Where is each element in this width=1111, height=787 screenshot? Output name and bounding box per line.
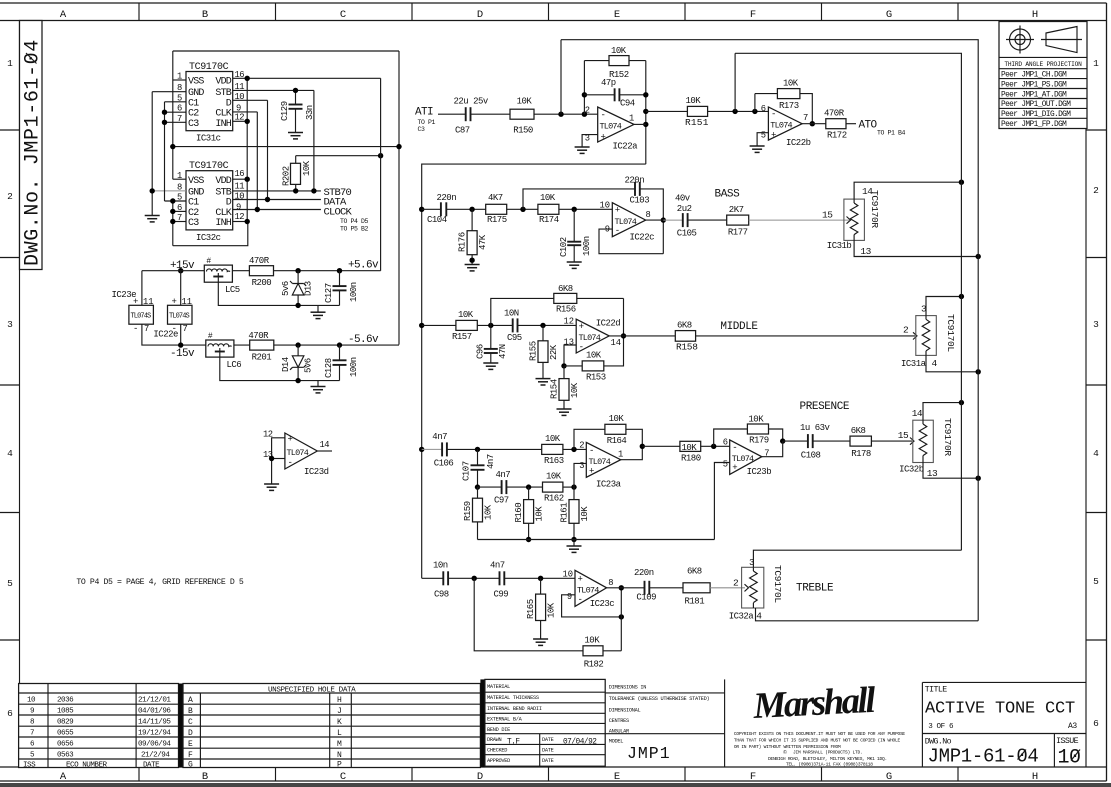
capacitor C105 2u2 40v	[682, 213, 684, 227]
svg-text:47N: 47N	[498, 344, 508, 359]
svg-text:TL074: TL074	[589, 457, 611, 467]
svg-text:C129: C129	[280, 101, 290, 121]
svg-text:220n: 220n	[625, 176, 645, 186]
svg-text:1u 63v: 1u 63v	[800, 423, 831, 433]
svg-text:R163: R163	[544, 456, 564, 466]
svg-text:C87: C87	[455, 126, 470, 136]
svg-text:10n: 10n	[433, 561, 448, 571]
ground symbol IC22b	[750, 146, 765, 152]
svg-text:VSS: VSS	[188, 176, 204, 187]
svg-text:VDD: VDD	[215, 176, 231, 187]
svg-text:EXTERNAL B/A: EXTERNAL B/A	[487, 717, 523, 723]
svg-text:8: 8	[608, 578, 613, 588]
svg-text:C3: C3	[188, 119, 199, 130]
svg-text:R162: R162	[544, 494, 564, 504]
svg-text:R202: R202	[282, 166, 292, 186]
wire IC22e negative supply	[180, 324, 182, 345]
svg-text:+: +	[771, 131, 776, 141]
wire IC23b pin5 to bottom bus	[714, 463, 729, 540]
svg-text:ISSUE: ISSUE	[1056, 737, 1079, 746]
wire C104 to R175	[446, 208, 485, 210]
wire treble input from bus	[422, 577, 444, 579]
capacitor C109 220n	[644, 581, 646, 595]
svg-text:TO P1 B4: TO P1 B4	[877, 130, 906, 137]
svg-text:IC31a: IC31a	[901, 359, 927, 369]
svg-text:-15v: -15v	[170, 348, 195, 360]
svg-text:R172: R172	[827, 131, 847, 141]
svg-text:#: #	[208, 332, 213, 341]
svg-text:C102: C102	[559, 237, 569, 257]
slashed zero marks on side text	[26, 53, 37, 64]
svg-text:TL074S: TL074S	[131, 313, 152, 321]
svg-text:LC6: LC6	[227, 360, 242, 370]
border bottom dark bar	[0, 783, 1111, 787]
svg-text:Peer JMP1_PS.DGM: Peer JMP1_PS.DGM	[1001, 81, 1067, 89]
svg-text:R201: R201	[252, 353, 272, 363]
svg-text:2: 2	[585, 106, 590, 116]
svg-text:INH: INH	[215, 218, 231, 229]
wire R174 to IC22c pin10	[559, 208, 612, 210]
svg-text:4n7: 4n7	[496, 470, 511, 480]
svg-text:100n: 100n	[349, 357, 359, 377]
svg-text:IC32c: IC32c	[196, 233, 221, 243]
svg-text:6: 6	[7, 708, 13, 719]
svg-text:13: 13	[563, 338, 574, 348]
wire R150 to IC22a pin2	[534, 113, 598, 115]
svg-text:3: 3	[749, 557, 755, 568]
svg-text:R164: R164	[607, 436, 627, 446]
svg-text:TL074: TL074	[579, 333, 601, 343]
wire C103 top tap	[523, 189, 635, 209]
svg-text:+: +	[615, 206, 620, 216]
svg-text:R179: R179	[749, 436, 769, 446]
svg-text:14: 14	[862, 186, 873, 197]
wire R157 to C95	[477, 324, 512, 326]
wire top bus to pots hot	[735, 53, 961, 550]
svg-text:10K: 10K	[586, 351, 602, 361]
svg-text:A: A	[60, 771, 67, 783]
svg-text:C99: C99	[494, 590, 509, 600]
left band ticks	[0, 130, 20, 640]
resistor R158 6K8	[675, 331, 695, 342]
border outer bottom line	[0, 780, 1107, 782]
wire R151 row	[646, 110, 688, 112]
svg-text:22u 25v: 22u 25v	[454, 97, 489, 107]
capacitor C128	[339, 345, 341, 360]
svg-text:MATERIAL: MATERIAL	[487, 684, 510, 690]
wire IC31b pin13 to bus	[854, 240, 978, 256]
node bass input	[419, 207, 424, 212]
svg-text:APPROVED: APPROVED	[487, 758, 510, 764]
wire C99 to IC23c pin10	[504, 577, 575, 579]
svg-text:10K: 10K	[546, 472, 562, 482]
wire IC23a output	[621, 446, 643, 459]
wire R182 loop	[603, 650, 621, 652]
op-amp IC23b	[730, 440, 762, 475]
wire IC22d pin13	[564, 345, 576, 366]
IC31c pin numbers	[177, 70, 244, 124]
svg-text:10K: 10K	[547, 602, 557, 618]
revision table row lines	[19, 693, 179, 759]
svg-text:OR IN PART) WITHOUT WRITTEN PE: OR IN PART) WITHOUT WRITTEN PERMISSION F…	[734, 744, 841, 750]
third angle projection box	[999, 22, 1087, 129]
wire +5.6v row	[274, 270, 381, 272]
svg-text:2: 2	[579, 441, 584, 451]
svg-text:IC23d: IC23d	[304, 467, 329, 477]
svg-text:6K8: 6K8	[687, 567, 702, 577]
svg-text:E: E	[188, 740, 193, 749]
wire CLK drop x=257.3	[256, 112, 258, 210]
svg-text:E: E	[614, 771, 620, 783]
svg-text:5: 5	[1093, 576, 1099, 587]
ground symbol IC22a	[575, 147, 590, 153]
svg-text:CENTRES: CENTRES	[609, 718, 629, 724]
svg-text:CHECKED: CHECKED	[487, 748, 507, 754]
border inner left line	[19, 21, 21, 768]
svg-text:C3: C3	[418, 126, 426, 133]
filter block LC6	[206, 340, 234, 357]
svg-text:IC22e: IC22e	[153, 330, 178, 340]
wire IC23d inputs tied	[272, 438, 285, 484]
resistor R151	[687, 106, 707, 116]
capacitor C102 100n to ground	[573, 209, 575, 241]
svg-text:5v6: 5v6	[281, 281, 291, 296]
svg-text:C105: C105	[677, 229, 697, 239]
svg-text:15: 15	[898, 430, 909, 441]
svg-text:R153: R153	[586, 373, 606, 383]
svg-text:2u2: 2u2	[677, 204, 692, 214]
svg-text:L: L	[337, 729, 342, 738]
svg-text:21/2/94: 21/2/94	[141, 752, 170, 760]
svg-text:10K: 10K	[611, 46, 627, 56]
wire IC22b pin5 ground	[757, 133, 768, 146]
svg-text:+: +	[589, 467, 594, 477]
svg-text:TC9170R: TC9170R	[942, 418, 953, 456]
ground symbol IC23d	[264, 484, 279, 490]
capacitor C129	[295, 90, 297, 104]
svg-text:13: 13	[860, 246, 871, 257]
wire R173 right riser	[800, 94, 812, 124]
svg-text:TITLE: TITLE	[925, 686, 948, 695]
node +15v	[178, 268, 183, 273]
resistor R179 10K feedback	[714, 429, 748, 446]
svg-text:15: 15	[822, 210, 833, 221]
ground symbol R176	[465, 265, 480, 271]
svg-text:PRESENCE: PRESENCE	[800, 401, 850, 413]
resistor R181 6K8	[683, 583, 710, 593]
capacitor C108 1u 63v	[807, 434, 809, 448]
peer file list rows	[999, 79, 1087, 119]
capacitor C96 47N to ground	[490, 325, 492, 349]
svg-text:D: D	[226, 98, 232, 109]
svg-text:G: G	[886, 771, 892, 783]
resistor R165 10K to ground	[536, 594, 546, 620]
bottom band ticks	[139, 767, 958, 781]
wire R173 left riser	[754, 94, 756, 112]
svg-text:+: +	[579, 322, 584, 332]
border inner top line	[0, 20, 1107, 22]
projection symbol circle outer	[1010, 29, 1031, 50]
svg-text:R161: R161	[560, 503, 570, 523]
svg-text:-: -	[578, 595, 583, 605]
svg-text:100n: 100n	[582, 236, 592, 256]
svg-text:T.F: T.F	[507, 739, 520, 747]
wire C109 to R181	[649, 587, 683, 589]
svg-text:R155: R155	[529, 341, 539, 361]
IC32c pin name labels	[188, 176, 232, 229]
svg-text:9: 9	[567, 592, 572, 602]
svg-text:DRAWN: DRAWN	[487, 737, 502, 743]
svg-text:MIDDLE: MIDDLE	[720, 321, 758, 333]
svg-text:1: 1	[629, 114, 634, 124]
svg-text:+: +	[172, 297, 177, 307]
svg-text:IC23b: IC23b	[747, 467, 772, 477]
wire IC23d output stub	[317, 450, 332, 452]
right band ticks	[1086, 130, 1107, 640]
svg-text:470R: 470R	[249, 256, 270, 266]
wire C97 to R162	[506, 486, 542, 488]
wire R175 to R174	[507, 208, 538, 210]
svg-text:5: 5	[761, 131, 766, 141]
wire output to C108	[783, 440, 808, 442]
svg-text:R200: R200	[252, 278, 272, 288]
wire IC22e supply drop	[180, 271, 182, 306]
capacitor C103 220n	[634, 182, 636, 196]
svg-text:TREBLE: TREBLE	[796, 583, 834, 595]
svg-text:6: 6	[761, 104, 766, 114]
svg-text:2036: 2036	[57, 697, 74, 705]
potentiometer IC31a TC9170L	[916, 316, 937, 356]
resistor R174 10K	[538, 204, 559, 214]
resistor R163 10K	[542, 444, 563, 454]
svg-text:11: 11	[182, 297, 193, 307]
drawn cells divider	[539, 734, 541, 767]
wire LC6 return	[220, 357, 340, 381]
svg-text:22K: 22K	[549, 344, 559, 360]
wire C106 to R163	[447, 448, 542, 450]
svg-text:14: 14	[912, 408, 923, 419]
wire IC23e supply drop	[141, 271, 143, 306]
svg-text:04/01/96: 04/01/96	[138, 708, 171, 716]
svg-text:10K: 10K	[686, 96, 702, 106]
svg-text:C: C	[340, 771, 346, 783]
wire R202 pullup to +5.6v	[296, 155, 381, 157]
svg-text:14: 14	[320, 440, 330, 450]
svg-text:10K: 10K	[540, 193, 556, 203]
wire IC22a output	[634, 123, 646, 125]
svg-text:TC9170C: TC9170C	[189, 62, 229, 73]
capacitor C87 22u 25v	[465, 107, 467, 121]
svg-text:-: -	[589, 446, 594, 456]
op-amp IC23c	[575, 570, 607, 606]
svg-text:R154: R154	[550, 379, 560, 399]
svg-text:IC32a: IC32a	[729, 612, 755, 622]
svg-text:D: D	[226, 198, 232, 209]
ground symbol R154	[557, 409, 572, 415]
wire R172 to ATO	[846, 123, 856, 125]
border inner bottom line	[0, 766, 1107, 768]
wire to R157	[422, 324, 456, 326]
svg-text:IC23c: IC23c	[590, 599, 615, 609]
junction dots VSS net	[170, 144, 175, 149]
svg-text:DENBIGH ROAD, BLETCHLEY, MILTO: DENBIGH ROAD, BLETCHLEY, MILTON KEYNES, …	[768, 756, 887, 762]
svg-text:TC9170L: TC9170L	[945, 314, 956, 352]
wire IC22d output	[609, 335, 675, 337]
resistor R200	[232, 270, 249, 272]
node presence input	[419, 447, 424, 452]
svg-text:C107: C107	[462, 461, 472, 481]
hole data row lines	[183, 693, 480, 759]
svg-text:D13: D13	[304, 281, 314, 296]
svg-text:IC22a: IC22a	[613, 142, 639, 152]
svg-text:1085: 1085	[57, 708, 74, 716]
svg-text:8: 8	[646, 210, 651, 220]
svg-text:5: 5	[7, 578, 13, 589]
svg-text:R150: R150	[513, 126, 533, 136]
revision table box	[19, 684, 179, 768]
wire R153 to output riser	[604, 298, 624, 366]
wire R162 to R161 node	[563, 486, 574, 488]
hole data table thick divider	[179, 684, 184, 768]
svg-text:7: 7	[183, 324, 188, 334]
svg-text:IC32b: IC32b	[899, 465, 924, 475]
svg-text:10K: 10K	[535, 506, 545, 522]
ground symbol C102	[567, 262, 582, 268]
svg-text:COPYRIGHT EXISTS ON THIS DOCUM: COPYRIGHT EXISTS ON THIS DOCUMENT.IT MUS…	[734, 731, 906, 737]
wire C95 to IC22d pin12	[518, 324, 577, 326]
svg-text:+: +	[578, 575, 583, 585]
op-amp IC23a	[586, 442, 620, 477]
wire output to R180	[642, 445, 680, 447]
DWG number side box	[20, 21, 43, 270]
wire R177 to IC31b wiper	[749, 219, 849, 221]
resistor R173	[777, 89, 800, 99]
svg-text:10K: 10K	[517, 97, 533, 107]
svg-text:TOLERANCE (UNLESS UTHERWISE ST: TOLERANCE (UNLESS UTHERWISE STATED)	[609, 696, 710, 702]
svg-text:07/04/92: 07/04/92	[563, 739, 597, 747]
wire STB drop x=313.9	[313, 90, 315, 190]
svg-text:C97: C97	[494, 496, 509, 506]
wire to C104	[422, 208, 441, 210]
svg-text:7: 7	[30, 730, 34, 738]
op-amp IC23d spare	[285, 433, 317, 469]
svg-text:R151: R151	[685, 117, 709, 128]
wire IC32b pin13 to bus	[923, 463, 978, 479]
svg-text:6: 6	[723, 438, 728, 448]
svg-text:H: H	[337, 696, 342, 705]
IC31c pin stubs left	[152, 80, 186, 122]
svg-text:C95: C95	[507, 333, 522, 343]
svg-text:DATE: DATE	[542, 737, 554, 743]
svg-text:C109: C109	[636, 593, 656, 603]
svg-text:LC5: LC5	[225, 285, 240, 295]
svg-text:A3: A3	[1068, 722, 1077, 731]
svg-text:5v6: 5v6	[304, 358, 314, 373]
wire +5.6v riser x=380.6	[380, 78, 382, 270]
resistor R175 4K7	[486, 204, 507, 214]
resistor R150	[510, 109, 534, 119]
svg-text:40v: 40v	[675, 194, 691, 204]
svg-text:220n: 220n	[437, 193, 457, 203]
svg-text:TL074: TL074	[600, 122, 622, 132]
hole data column lines	[199, 693, 201, 768]
wire IC22b output	[802, 123, 826, 125]
wire VDD vertical x=247.2	[246, 78, 248, 221]
svg-text:4n7: 4n7	[432, 432, 447, 442]
filter block LC5	[204, 265, 232, 282]
svg-text:-: -	[579, 343, 584, 353]
svg-text:10: 10	[27, 697, 36, 705]
svg-text:Peer JMP1_CH.DGM: Peer JMP1_CH.DGM	[1001, 72, 1067, 80]
wire IC23c feedback loop	[562, 595, 622, 617]
svg-text:10: 10	[1058, 747, 1081, 770]
svg-text:R181: R181	[685, 597, 705, 607]
wire IC32a pin4 to bus	[756, 608, 979, 621]
material block box	[485, 679, 605, 766]
wire R161 node to IC23a pin3	[574, 463, 586, 487]
svg-text:D: D	[188, 729, 193, 738]
svg-text:4n7: 4n7	[486, 454, 496, 469]
op-amp IC22d	[576, 319, 609, 353]
copyright small print	[734, 731, 906, 768]
svg-text:C104: C104	[427, 215, 447, 225]
svg-text:C108: C108	[801, 451, 821, 461]
capacitor C99 4n7	[499, 571, 501, 585]
svg-text:THAN THAT FOR WHICH IT IS SUPP: THAN THAT FOR WHICH IT IS SUPPLIED AND M…	[734, 738, 901, 744]
svg-text:+: +	[601, 133, 606, 143]
bottom band letters A-H	[60, 771, 1038, 783]
ground symbol bottom bus	[573, 540, 575, 547]
bottom bus presence	[478, 539, 715, 541]
svg-text:TO P4 D5: TO P4 D5	[340, 218, 369, 225]
svg-text:R177: R177	[728, 228, 748, 238]
wire VSS top loop	[173, 50, 399, 52]
svg-text:TO P5 B2: TO P5 B2	[340, 226, 369, 233]
svg-text:INTERNAL BEND RADII: INTERNAL BEND RADII	[487, 706, 542, 712]
svg-text:R178: R178	[851, 449, 871, 459]
svg-text:4: 4	[756, 611, 762, 622]
svg-text:F: F	[188, 751, 193, 760]
wire GND vertical x=152.2	[151, 92, 153, 216]
wire IC23c output	[607, 587, 645, 589]
svg-text:C3: C3	[188, 218, 199, 229]
svg-text:ISS: ISS	[23, 761, 36, 769]
svg-text:10K: 10K	[484, 504, 494, 520]
revision table entries	[23, 697, 171, 770]
svg-text:6K8: 6K8	[558, 284, 573, 294]
slashed zero in issue number	[1071, 750, 1080, 761]
svg-text:3: 3	[7, 319, 13, 330]
wire C pins vertical x=164.5	[164, 102, 166, 201]
zener diode D14	[297, 345, 299, 356]
svg-text:10K: 10K	[458, 310, 474, 320]
svg-text:4: 4	[1093, 448, 1099, 459]
svg-text:10N: 10N	[504, 309, 519, 319]
svg-text:-5.6v: -5.6v	[348, 334, 379, 346]
svg-text:G: G	[886, 9, 892, 21]
svg-text:D14: D14	[281, 357, 291, 372]
svg-text:3 OF 6: 3 OF 6	[928, 723, 954, 731]
wire IC32a pin3 to bus	[753, 550, 961, 567]
svg-text:14: 14	[611, 338, 622, 348]
svg-text:10K: 10K	[584, 636, 600, 646]
wire R181 to IC32a wiper	[710, 587, 745, 589]
IC31c pin stubs right / nets	[233, 77, 381, 79]
svg-text:IC23a: IC23a	[596, 480, 622, 490]
svg-text:-: -	[601, 111, 606, 121]
svg-text:C127: C127	[324, 283, 334, 303]
wire IC31b pin14 to bus	[854, 182, 961, 199]
